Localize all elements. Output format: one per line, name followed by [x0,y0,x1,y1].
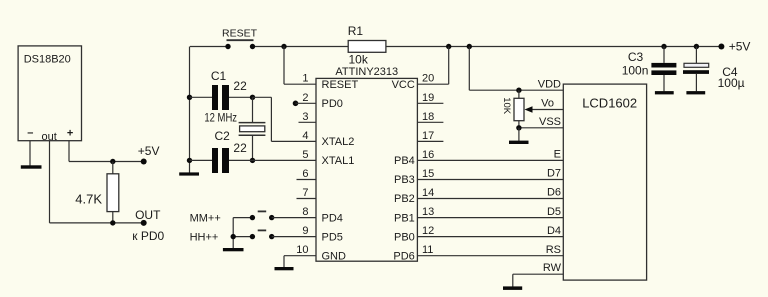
wire button SB2 to pin 8 [272,217,316,219]
svg-text:16: 16 [422,149,434,161]
svg-text:LCD1602: LCD1602 [582,96,637,111]
wire GND pin of DS18B20 [29,141,31,166]
svg-text:R1: R1 [348,24,364,38]
svg-text:PB2: PB2 [394,193,415,205]
svg-text:13: 13 [422,206,434,218]
svg-text:1: 1 [302,73,308,85]
svg-text:RS: RS [546,244,561,256]
label C3 [628,50,644,64]
pin number 15 [422,168,434,180]
wire C2 left [190,159,213,161]
wire XTAL1 to chip pin 5 [229,159,316,161]
pin number 8 [302,206,308,218]
svg-text:XTAL1: XTAL1 [322,155,355,167]
pin name PB3 [394,174,415,186]
label R1 value 10k [349,53,369,67]
svg-text:MM++: MM++ [190,212,221,224]
label C1 [211,69,227,83]
pin name GND [322,250,347,262]
capacitor C4 100u electrolytic [683,47,709,92]
svg-text:VSS: VSS [539,116,561,128]
label R1 [348,24,364,38]
pin number 9 [302,225,308,237]
switch SB2 MM++ [250,211,275,220]
resistor R2 4.7K body [107,162,119,223]
wire VSS [519,127,563,129]
pin number 11 [422,244,433,256]
wire RW [513,274,564,286]
ground under C4 [686,91,705,94]
IC U1 ATTINY2313 body [316,78,417,261]
svg-text:PD6: PD6 [393,250,414,262]
svg-text:PB4: PB4 [394,155,415,167]
label D7 [547,168,561,180]
pin number 10 [296,244,308,256]
wire to chip pin 1 RESET [284,47,316,85]
pin number 16 [422,149,434,161]
pin name XTAL1 [322,155,355,167]
pin name PD5 [322,231,343,243]
label D4 [547,225,561,237]
display LCD1602 body [563,84,646,280]
wire D6 bus [417,198,563,200]
label C4 [722,65,738,79]
label ATTINY2313 [335,66,398,78]
pin number 18 [422,111,434,123]
svg-text:19: 19 [422,92,434,104]
svg-text:4: 4 [302,130,308,142]
crystal Q1 12MHz [239,97,266,160]
svg-text:GND: GND [322,250,347,262]
pin name RESET [322,79,359,91]
wire XTAL2 route [253,97,317,141]
node C4 junction [694,44,699,49]
svg-text:10K: 10K [501,97,512,115]
wire button SB3 to pin 9 [272,236,316,238]
wire top rail left segment [190,46,228,48]
wire D7 bus [417,179,563,181]
pin number 19 [422,92,434,104]
pin number 20 [422,73,434,85]
svg-text:Vo: Vo [541,98,554,110]
svg-text:+: + [67,128,73,140]
potentiometer R3 10K body [514,90,524,128]
svg-text:ATTINY2313: ATTINY2313 [335,66,398,78]
pin number 7 [302,187,308,199]
pin name PB2 [394,193,415,205]
wire D5 bus [417,217,563,219]
pin name PD0 [322,98,343,110]
svg-text:11: 11 [422,244,433,256]
svg-text:100n: 100n [622,63,649,77]
wire plus pin of DS18B20 to +5V [69,141,144,162]
pin number 1 [302,73,308,85]
wire pin 10 GND [284,256,316,268]
wire buttons ground rail [232,218,234,249]
label k PD0 [132,229,164,243]
svg-text:7: 7 [302,187,308,199]
node crystal bottom junction [250,158,255,163]
svg-text:C3: C3 [628,50,644,64]
pin number 5 [302,149,308,161]
svg-text:18: 18 [422,111,434,123]
node pot top junction [516,88,521,93]
svg-text:12 MHz: 12 MHz [204,112,237,125]
wire button SB3 left [233,236,252,238]
svg-text:14: 14 [422,187,434,199]
svg-text:VDD: VDD [538,78,561,90]
svg-text:12: 12 [422,225,434,237]
capacitor C1 plates [212,85,229,110]
ground under buttons [223,248,244,251]
pin number 17 [422,130,434,142]
svg-text:PD0: PD0 [322,98,343,110]
pin number 3 [302,111,308,123]
pin number 2 [302,92,308,104]
svg-text:9: 9 [302,225,308,237]
wire D4 bus [417,236,563,238]
ground under C3 [655,91,674,94]
wire pot to ground [518,128,520,141]
sensor pin label plus [67,128,73,140]
label E [554,149,561,161]
wire pin 7 stub [297,198,317,200]
svg-text:D4: D4 [547,225,561,237]
svg-text:VCC: VCC [392,79,415,91]
label C2 [215,129,231,143]
svg-text:10k: 10k [349,53,369,67]
sensor pin label minus [27,127,33,139]
ground under left rail [179,172,199,175]
svg-text:+5V: +5V [729,40,751,54]
node pot bottom junction [516,125,521,130]
svg-text:PD4: PD4 [322,212,343,224]
svg-text:15: 15 [422,168,434,180]
pin number 4 [302,130,308,142]
svg-text:PB3: PB3 [394,174,415,186]
node C2 left junction [187,158,192,163]
terminal +5V right [718,44,724,50]
wire pin 6 stub [297,179,317,181]
node pin1 branch junction [281,44,286,49]
switch SB3 HH++ [250,230,275,239]
wire button SB2 left [233,217,252,219]
pin name VCC [392,79,415,91]
pin name PD4 [322,212,343,224]
label RS [546,244,561,256]
label Vo [541,98,554,110]
wire pin 18 stub [417,121,443,123]
svg-text:PB0: PB0 [394,231,415,243]
switch SB1 RESET [225,40,255,49]
node crystal top junction [250,95,255,100]
svg-text:22: 22 [233,79,247,93]
node VCC branch junction [446,44,451,49]
wire top rail main segment [253,46,722,48]
svg-text:4.7K: 4.7K [75,192,102,207]
svg-text:DS18B20: DS18B20 [24,53,71,65]
svg-text:C1: C1 [211,69,227,83]
label OUT [135,208,161,222]
svg-text:–: – [27,127,33,139]
label LCD1602 [582,96,637,111]
label RW [543,262,562,274]
svg-text:100µ: 100µ [718,76,745,90]
svg-text:XTAL2: XTAL2 [322,136,355,148]
label +5V right [729,40,751,54]
resistor R1 body [348,41,386,53]
svg-text:8: 8 [302,206,308,218]
svg-text:5: 5 [302,149,308,161]
wire E bus [417,159,563,161]
node C1 left junction [187,95,192,100]
pin number 12 [422,225,434,237]
svg-text:D7: D7 [547,168,561,180]
label C3 value 100n [622,63,649,77]
pin name XTAL2 [322,136,355,148]
svg-text:2: 2 [302,92,308,104]
svg-text:RW: RW [543,262,562,274]
pin name PB0 [394,231,415,243]
label 10K rotated [501,97,512,115]
svg-text:E: E [554,149,561,161]
pin number 13 [422,206,434,218]
svg-text:OUT: OUT [135,208,161,222]
node buttons junction [231,234,236,239]
svg-text:RESET: RESET [322,79,359,91]
ground under pin 10 [275,267,294,270]
svg-text:PB1: PB1 [394,212,415,224]
wire VDD riser [469,47,563,91]
wire pin 17 stub [417,140,443,142]
svg-text:20: 20 [422,73,434,85]
label VSS [539,116,561,128]
svg-text:17: 17 [422,130,434,142]
temperature sensor U2 DS18B20 body [18,46,81,141]
wire pin 3 stub [299,121,317,123]
node C3 junction [661,44,666,49]
label MM++ [190,212,221,224]
svg-text:RESET: RESET [222,27,258,39]
sensor U2 label DS18B20 [24,53,71,65]
node junction R2 bottom [110,220,115,225]
svg-text:22: 22 [233,141,247,155]
node VDD branch junction [467,44,472,49]
wire C1 left [190,96,213,98]
svg-text:PD5: PD5 [322,231,343,243]
pin number 14 [422,187,434,199]
label D6 [547,187,561,199]
label C4 value 100u [718,76,745,90]
wire pin 19 stub [417,102,443,104]
pin name PD6 [393,250,414,262]
label +5V left [138,144,160,158]
node junction R2 top [110,159,115,164]
label 12 MHz [204,112,237,125]
wire out pin of DS18B20 [50,141,144,223]
svg-text:HH++: HH++ [190,231,219,243]
capacitor C3 100n [651,47,676,92]
capacitor C2 plates [212,148,229,173]
svg-text:10: 10 [296,244,308,256]
pin number 6 [302,168,308,180]
svg-text:C2: C2 [215,129,231,143]
label RESET [222,27,258,39]
terminal PD0 pin 2 [293,101,316,107]
terminal +5V left [141,159,147,165]
wire RS bus [417,255,563,257]
ground under pot [509,141,529,144]
label C2 value 22 [233,141,247,155]
svg-text:D6: D6 [547,187,561,199]
wire left rail vertical [189,47,191,174]
pin name PB4 [394,155,415,167]
label VDD [538,78,561,90]
wire C1 right to crystal node [229,96,253,98]
wire VCC riser [417,47,448,85]
svg-text:+5V: +5V [138,144,160,158]
wiper arrow to Vo [525,106,564,113]
resistor R2 value 4.7K [75,192,102,207]
label C1 value 22 [233,79,247,93]
svg-text:3: 3 [302,111,308,123]
sensor pin label out [42,131,57,143]
label D5 [547,206,561,218]
svg-text:D5: D5 [547,206,561,218]
pin name PB1 [394,212,415,224]
svg-text:к PD0: к PD0 [132,229,164,243]
label HH++ [190,231,219,243]
ground under RW [503,286,522,290]
terminal OUT [141,220,147,226]
svg-text:6: 6 [302,168,308,180]
ground under DS18B20 [21,165,42,168]
